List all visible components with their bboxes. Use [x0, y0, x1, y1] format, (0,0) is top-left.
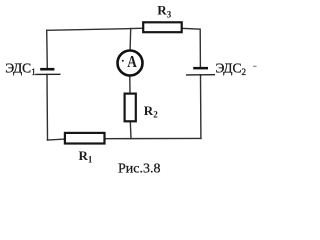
wire middle branch lower (R2 to bottom junction)	[129, 121, 132, 138]
wire left upper segment (top-left corner down to EMF1 top)	[46, 30, 49, 68]
EMF source EDS1 (battery): thick plate	[40, 68, 54, 71]
ammeter needle dot	[122, 60, 124, 62]
resistor R2	[125, 94, 136, 122]
wire top-right segment (R3 right lead to top-right corner, down to EMF2)	[182, 28, 201, 67]
svg-text:R2: R2	[144, 103, 158, 120]
wire middle branch between ammeter and R2	[129, 76, 131, 93]
wire top-left segment (left corner to R3 left lead, junction with ammeter branch)	[47, 28, 143, 30]
svg-text:Рис.3.8: Рис.3.8	[118, 162, 161, 177]
svg-text:A: A	[127, 53, 137, 72]
wire bottom-right segment (bottom-right corner to R1 right lead)	[105, 137, 201, 139]
EMF source EDS2 thin plate	[186, 74, 215, 76]
svg-text:ЭДС2: ЭДС2	[216, 60, 247, 76]
wire bottom-left segment (R1 left lead to bottom-left corner)	[48, 138, 65, 141]
EMF source EDS1 thin plate	[35, 73, 60, 75]
svg-text:R3: R3	[157, 3, 171, 20]
svg-text:ЭДС1: ЭДС1	[5, 61, 36, 77]
wire left lower segment (EMF1 bottom to bottom-left corner)	[46, 74, 49, 140]
wire middle branch upper (top junction to ammeter)	[129, 29, 132, 50]
wire right lower segment (EMF2 bottom to bottom-right corner)	[200, 75, 202, 139]
resistor R3	[143, 22, 182, 32]
ammeter U1 (circle)	[118, 51, 143, 76]
EMF source EDS2 (battery): thick plate	[193, 67, 208, 70]
svg-text:R1: R1	[79, 148, 93, 165]
scan artifact dash at right edge	[253, 66, 257, 67]
resistor R1	[65, 133, 105, 144]
